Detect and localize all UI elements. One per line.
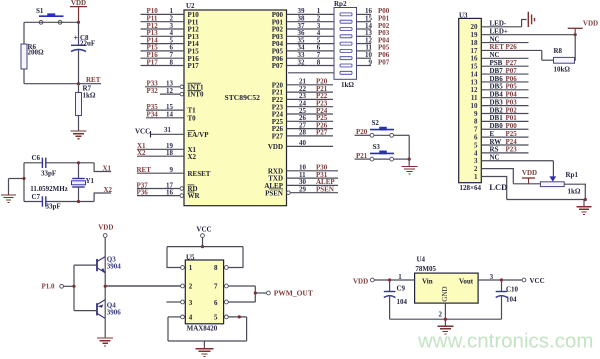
svg-text:9: 9: [170, 166, 174, 174]
svg-text:P27: P27: [272, 133, 284, 141]
U5 pin 5 wire: [225, 315, 229, 319]
svg-text:Rp1: Rp1: [566, 171, 579, 179]
svg-text:LED+: LED+: [490, 27, 508, 35]
wire Rp2 pin 16 to net P00: [357, 13, 372, 15]
wire R6 branch: [23, 22, 25, 44]
svg-text:P27: P27: [316, 129, 328, 137]
svg-text:Vout: Vout: [459, 277, 474, 285]
wire S2/S3 common: [408, 135, 410, 159]
svg-text:S3: S3: [373, 143, 381, 151]
svg-text:P1.0: P1.0: [42, 282, 56, 290]
svg-text:15: 15: [471, 63, 479, 71]
svg-text:PSB: PSB: [490, 59, 503, 67]
pin 5 / net P14: [141, 43, 185, 45]
svg-text:10kΩ: 10kΩ: [554, 65, 571, 73]
node X1: [94, 163, 111, 172]
svg-text:2: 2: [474, 165, 478, 173]
svg-text:6: 6: [474, 134, 478, 142]
svg-text:VCC: VCC: [196, 226, 211, 234]
pin 23 / net P22: [287, 98, 334, 100]
pin 40 VDD: [287, 145, 334, 147]
svg-text:VDD: VDD: [98, 224, 113, 232]
svg-text:11: 11: [471, 94, 478, 102]
svg-text:P27: P27: [506, 59, 518, 67]
svg-text:VDD: VDD: [583, 20, 598, 28]
pin 22 / net P21: [287, 91, 334, 93]
svg-text:18: 18: [166, 149, 174, 157]
svg-text:U2: U2: [186, 2, 195, 10]
pin 7 / net P16: [141, 57, 185, 59]
svg-text:1kΩ: 1kΩ: [83, 92, 96, 100]
svg-text:VCC: VCC: [135, 127, 150, 135]
junction VCC: [201, 245, 204, 248]
pin 8 / net P17: [141, 65, 185, 67]
pin 30 ALE/P: [287, 184, 339, 186]
crystal Y1 11.0592MHz: [78, 163, 80, 179]
pin 29 PSEN: [290, 192, 338, 194]
wire P05 pin 34 to Rp2 pin 6: [287, 50, 335, 52]
svg-text:7: 7: [214, 283, 218, 291]
pin 17 RD / net P37: [137, 188, 180, 190]
junction Y1 top: [77, 161, 80, 164]
junction U4 gnd: [444, 318, 447, 321]
pin 28 / net P27: [287, 135, 334, 137]
svg-text:P23: P23: [506, 146, 518, 154]
svg-text:5: 5: [214, 314, 218, 322]
ground (crystal): [8, 179, 10, 195]
pin 6 / net P15: [141, 50, 185, 52]
svg-text:LED-: LED-: [490, 20, 507, 28]
pin 25 / net P24: [287, 113, 334, 115]
svg-text:P24: P24: [506, 138, 518, 146]
Rp2 element 6: [340, 49, 352, 52]
svg-text:S1: S1: [36, 7, 44, 15]
svg-text:18: 18: [471, 39, 479, 47]
ground sideways (LED-): [522, 20, 527, 27]
Rp2 element 1: [340, 13, 352, 16]
svg-text:www.cntronics.com: www.cntronics.com: [417, 330, 593, 353]
wire VCC loop top: [167, 246, 243, 248]
svg-text:20: 20: [471, 23, 479, 31]
net RET wire: [24, 83, 101, 85]
node VCC output: [522, 278, 526, 282]
pin 27 / net P26: [287, 128, 334, 130]
svg-text:RS: RS: [490, 146, 499, 154]
svg-text:29: 29: [299, 186, 307, 194]
svg-text:P36: P36: [137, 188, 149, 196]
svg-text:3: 3: [189, 299, 193, 307]
svg-text:P06: P06: [506, 75, 518, 83]
svg-text:WR: WR: [188, 192, 201, 200]
wire P01 pin 38 to Rp2 pin 2: [287, 21, 335, 23]
U5 pin 8 wire: [228, 247, 243, 268]
junction crystal-gnd: [22, 177, 25, 180]
svg-text:VDD: VDD: [353, 277, 368, 285]
svg-text:P17: P17: [147, 58, 159, 66]
wire P06 pin 33 to Rp2 pin 7: [287, 57, 335, 59]
svg-text:7: 7: [474, 126, 478, 134]
svg-text:P03: P03: [506, 98, 518, 106]
pin 19 X1: [137, 148, 184, 150]
junction pot-gnd: [584, 198, 587, 201]
svg-text:C7: C7: [32, 193, 41, 201]
svg-text:78M05: 78M05: [415, 265, 436, 273]
wire pot left: [513, 183, 540, 185]
wire Rp2 pin 12 to net P04: [357, 43, 372, 45]
svg-text:10: 10: [471, 102, 479, 110]
svg-text:LCD: LCD: [489, 182, 507, 192]
wire S1 top: [24, 21, 79, 23]
svg-text:12: 12: [471, 86, 479, 94]
pin 13 INT1 / net P33: [145, 86, 180, 88]
junction PWM tap: [254, 291, 257, 294]
Rp2 element 9: [340, 71, 352, 74]
svg-text:3906: 3906: [107, 309, 122, 317]
svg-text:2: 2: [189, 283, 193, 291]
wire pin7-pin6 link: [254, 286, 256, 302]
svg-text:DB1: DB1: [490, 114, 504, 122]
wire U4 ground loop: [390, 318, 502, 320]
transistor Q4 3906 PNP: [96, 303, 98, 315]
svg-text:13: 13: [471, 78, 479, 86]
svg-text:S2: S2: [372, 119, 380, 127]
svg-text:Y1: Y1: [86, 177, 95, 185]
svg-text:RET: RET: [86, 76, 101, 84]
svg-text:P07: P07: [272, 62, 284, 70]
svg-text:19: 19: [471, 31, 479, 39]
Rp2 element 3: [340, 28, 352, 31]
svg-text:INT0: INT0: [188, 91, 204, 99]
wire Rp2 pin 14 to net P02: [357, 28, 372, 30]
pin 2 / net P11: [141, 21, 185, 23]
U5 pin 4 wire: [181, 315, 185, 319]
svg-text:X2: X2: [137, 149, 146, 157]
svg-text:P07: P07: [378, 58, 390, 66]
svg-text:P00: P00: [506, 122, 518, 130]
svg-text:T0: T0: [188, 114, 197, 122]
junction emitters: [104, 285, 107, 288]
wire crystal bottom: [24, 201, 42, 203]
svg-text:VDD: VDD: [522, 169, 537, 177]
node PWM_OUT: [255, 292, 266, 294]
svg-text:P05: P05: [506, 83, 518, 91]
svg-text:2: 2: [439, 311, 443, 319]
U4 pin 2 GND: [444, 303, 446, 319]
U5 pin 2 wire (from driver): [105, 285, 181, 287]
svg-text:STC89C52: STC89C52: [225, 93, 261, 102]
wire VDD to Vin pin 1: [374, 279, 414, 281]
svg-text:DB6: DB6: [490, 75, 504, 83]
pin 31 EA/VP / power VCC: [151, 133, 185, 135]
svg-text:40: 40: [299, 139, 307, 147]
svg-text:16: 16: [166, 188, 174, 196]
wire P03 pin 36 to Rp2 pin 4: [287, 35, 335, 37]
wire LCD pin1 ground bus: [507, 199, 586, 201]
svg-text:RET: RET: [490, 43, 505, 51]
svg-text:8: 8: [214, 264, 218, 272]
svg-text:P01: P01: [506, 114, 518, 122]
svg-text:P32: P32: [147, 87, 159, 95]
pin 4 / net P13: [141, 35, 185, 37]
svg-text:1: 1: [398, 273, 402, 281]
svg-text:3: 3: [474, 157, 478, 165]
svg-text:RET: RET: [137, 166, 152, 174]
wire Rp2 pin 13 to net P03: [357, 35, 372, 37]
svg-text:14: 14: [471, 70, 479, 78]
svg-text:P25: P25: [506, 130, 518, 138]
junction RET-C8: [77, 82, 80, 85]
svg-text:104: 104: [397, 298, 408, 306]
svg-text:16: 16: [471, 55, 479, 63]
svg-text:31: 31: [164, 126, 172, 134]
pin 1 / net P10: [141, 13, 185, 15]
svg-text:C9: C9: [397, 285, 406, 293]
svg-text:PWM_OUT: PWM_OUT: [274, 289, 313, 298]
ground (driver): [104, 319, 106, 338]
Rp2 element 8: [340, 64, 352, 67]
pin 11 TXD / net P31: [287, 177, 339, 179]
U5 pin 3 stub: [167, 301, 181, 303]
wire base bus: [73, 265, 75, 311]
junction S1-VDD: [77, 21, 80, 24]
U5 pin 6 wire: [225, 300, 229, 304]
junction C9: [388, 278, 391, 281]
wire crystal top: [24, 162, 42, 164]
pin 12 INT0 / net P32: [160, 93, 180, 95]
svg-text:X2: X2: [188, 153, 197, 161]
svg-text:C6: C6: [32, 154, 41, 162]
svg-text:4: 4: [189, 314, 193, 322]
transistor Q3 3904 NPN: [96, 259, 98, 271]
svg-text:C10: C10: [506, 286, 519, 294]
svg-text:MAX8420: MAX8420: [187, 324, 218, 332]
svg-text:32: 32: [298, 58, 306, 66]
svg-text:DB7: DB7: [490, 67, 504, 75]
Rp2 common pin wire: [288, 72, 334, 74]
wire P07 pin 32 to Rp2 pin 8: [287, 65, 335, 67]
svg-text:Vin: Vin: [422, 277, 433, 285]
svg-text:9: 9: [369, 58, 373, 66]
svg-text:U4: U4: [417, 256, 426, 264]
svg-text:PSEN: PSEN: [265, 189, 283, 197]
junction S3-gnd: [408, 158, 411, 161]
svg-text:+: +: [74, 34, 79, 43]
svg-text:RESET: RESET: [188, 170, 211, 178]
resistor R6 200ohm: [21, 44, 27, 69]
svg-text:5: 5: [474, 141, 478, 149]
pin 9 RESET / net RET: [137, 172, 184, 174]
svg-text:4: 4: [474, 149, 478, 157]
node X2: [94, 193, 111, 202]
capacitor C10 104: [501, 280, 503, 292]
Rp2 element 4: [340, 35, 352, 38]
pin 18 X2: [137, 155, 184, 157]
svg-text:DB0: DB0: [490, 122, 504, 130]
svg-text:NC: NC: [490, 154, 500, 162]
ground (LCD): [583, 200, 585, 207]
U5 pin 7 wire: [225, 284, 229, 288]
svg-text:17: 17: [471, 47, 479, 55]
Rp2 element 7: [340, 57, 352, 60]
svg-text:X2: X2: [104, 186, 113, 194]
svg-text:EA/VP: EA/VP: [188, 131, 210, 139]
wire Rp2 pin 10 to net P06: [357, 57, 372, 59]
svg-text:GND: GND: [441, 286, 449, 301]
wire pot right to ground: [564, 184, 585, 199]
wire P04 pin 35 to Rp2 pin 5: [287, 43, 335, 45]
wire P02 pin 37 to Rp2 pin 3: [287, 28, 335, 30]
svg-text:1kΩ: 1kΩ: [568, 188, 581, 196]
ground (U5): [203, 341, 205, 348]
pin 10 RXD / net P30: [287, 170, 339, 172]
svg-text:200Ω: 200Ω: [28, 49, 45, 57]
ground (reset): [71, 130, 87, 132]
svg-text:6: 6: [214, 299, 218, 307]
pin 24 / net P23: [287, 106, 334, 108]
svg-text:DB4: DB4: [490, 91, 504, 99]
svg-text:Rp2: Rp2: [334, 0, 347, 8]
wire Rp2 pin 9 to net P07: [357, 65, 372, 67]
pin 15 T1 / net P35: [146, 109, 184, 111]
svg-text:28: 28: [299, 129, 307, 137]
svg-text:3: 3: [490, 273, 494, 281]
svg-text:P17: P17: [188, 62, 200, 70]
capacitor C9 104: [389, 280, 391, 292]
svg-text:DB3: DB3: [490, 98, 504, 106]
svg-text:3904: 3904: [107, 263, 122, 271]
capacitor C8 22uF: [78, 22, 80, 45]
svg-text:P34: P34: [147, 111, 159, 119]
svg-text:VCC: VCC: [530, 277, 545, 285]
Rp2 element 5: [340, 42, 352, 45]
svg-text:1: 1: [189, 264, 193, 272]
wire P00 pin 39 to Rp2 pin 1: [287, 13, 335, 15]
svg-text:DB5: DB5: [490, 83, 504, 91]
svg-text:11.0592MHz: 11.0592MHz: [30, 185, 68, 193]
wire R8 to VDD: [574, 35, 577, 61]
Rp2 element 2: [340, 20, 352, 23]
svg-text:P02: P02: [506, 106, 518, 114]
potentiometer Rp1 1kohm: [552, 161, 554, 177]
svg-text:E: E: [490, 130, 495, 138]
resistor R8 10kohm: [541, 50, 543, 60]
svg-text:12: 12: [166, 87, 174, 95]
svg-text:8: 8: [474, 118, 478, 126]
svg-text:8: 8: [170, 58, 174, 66]
svg-text:DB2: DB2: [490, 106, 504, 114]
svg-text:33pF: 33pF: [46, 203, 61, 211]
pin 16 WR / net P36: [137, 195, 180, 197]
pin 26 / net P25: [287, 120, 334, 122]
svg-text:33pF: 33pF: [41, 170, 56, 178]
svg-text:8: 8: [317, 58, 321, 66]
svg-text:RW: RW: [490, 138, 502, 146]
svg-text:9: 9: [474, 110, 478, 118]
junction Y1 bottom: [77, 200, 80, 203]
svg-text:PSEN: PSEN: [316, 186, 334, 194]
pin 21 / net P20: [287, 84, 334, 86]
svg-text:NC: NC: [490, 35, 500, 43]
svg-text:NC: NC: [490, 51, 500, 59]
svg-text:22uF: 22uF: [80, 39, 95, 47]
wire crystal left branch: [23, 163, 25, 202]
svg-text:X1: X1: [103, 164, 112, 172]
pin 14 T0 / net P34: [146, 117, 184, 119]
svg-text:P26: P26: [506, 43, 518, 51]
svg-text:104: 104: [506, 296, 517, 304]
junction C10: [500, 278, 503, 281]
capacitor C7 33pF: [41, 196, 43, 206]
svg-text:VDD: VDD: [268, 143, 283, 151]
wire ground stub crystal: [9, 178, 25, 180]
wire driver output: [105, 285, 180, 287]
ground (switches): [408, 159, 410, 166]
pin 3 / net P12: [141, 28, 185, 30]
wire U5 bottom loop: [168, 340, 247, 342]
ground (U4): [444, 319, 446, 326]
svg-text:14: 14: [166, 111, 174, 119]
svg-text:1: 1: [474, 173, 478, 181]
svg-text:128×64: 128×64: [460, 184, 482, 192]
resistor R7 1kohm: [78, 84, 80, 93]
svg-text:R8: R8: [554, 47, 563, 55]
wire Vout pin 3 to VCC: [478, 279, 522, 281]
wire Rp2 pin 15 to net P01: [357, 21, 372, 23]
junction LED+/R8: [574, 33, 577, 36]
svg-text:P07: P07: [506, 67, 518, 75]
svg-text:P04: P04: [506, 91, 518, 99]
svg-text:1kΩ: 1kΩ: [341, 81, 354, 89]
capacitor C6 33pF: [41, 158, 43, 168]
junction base: [72, 285, 75, 288]
wire Rp2 pin 11 to net P05: [357, 50, 372, 52]
U5 pin 1 wire: [167, 247, 181, 268]
